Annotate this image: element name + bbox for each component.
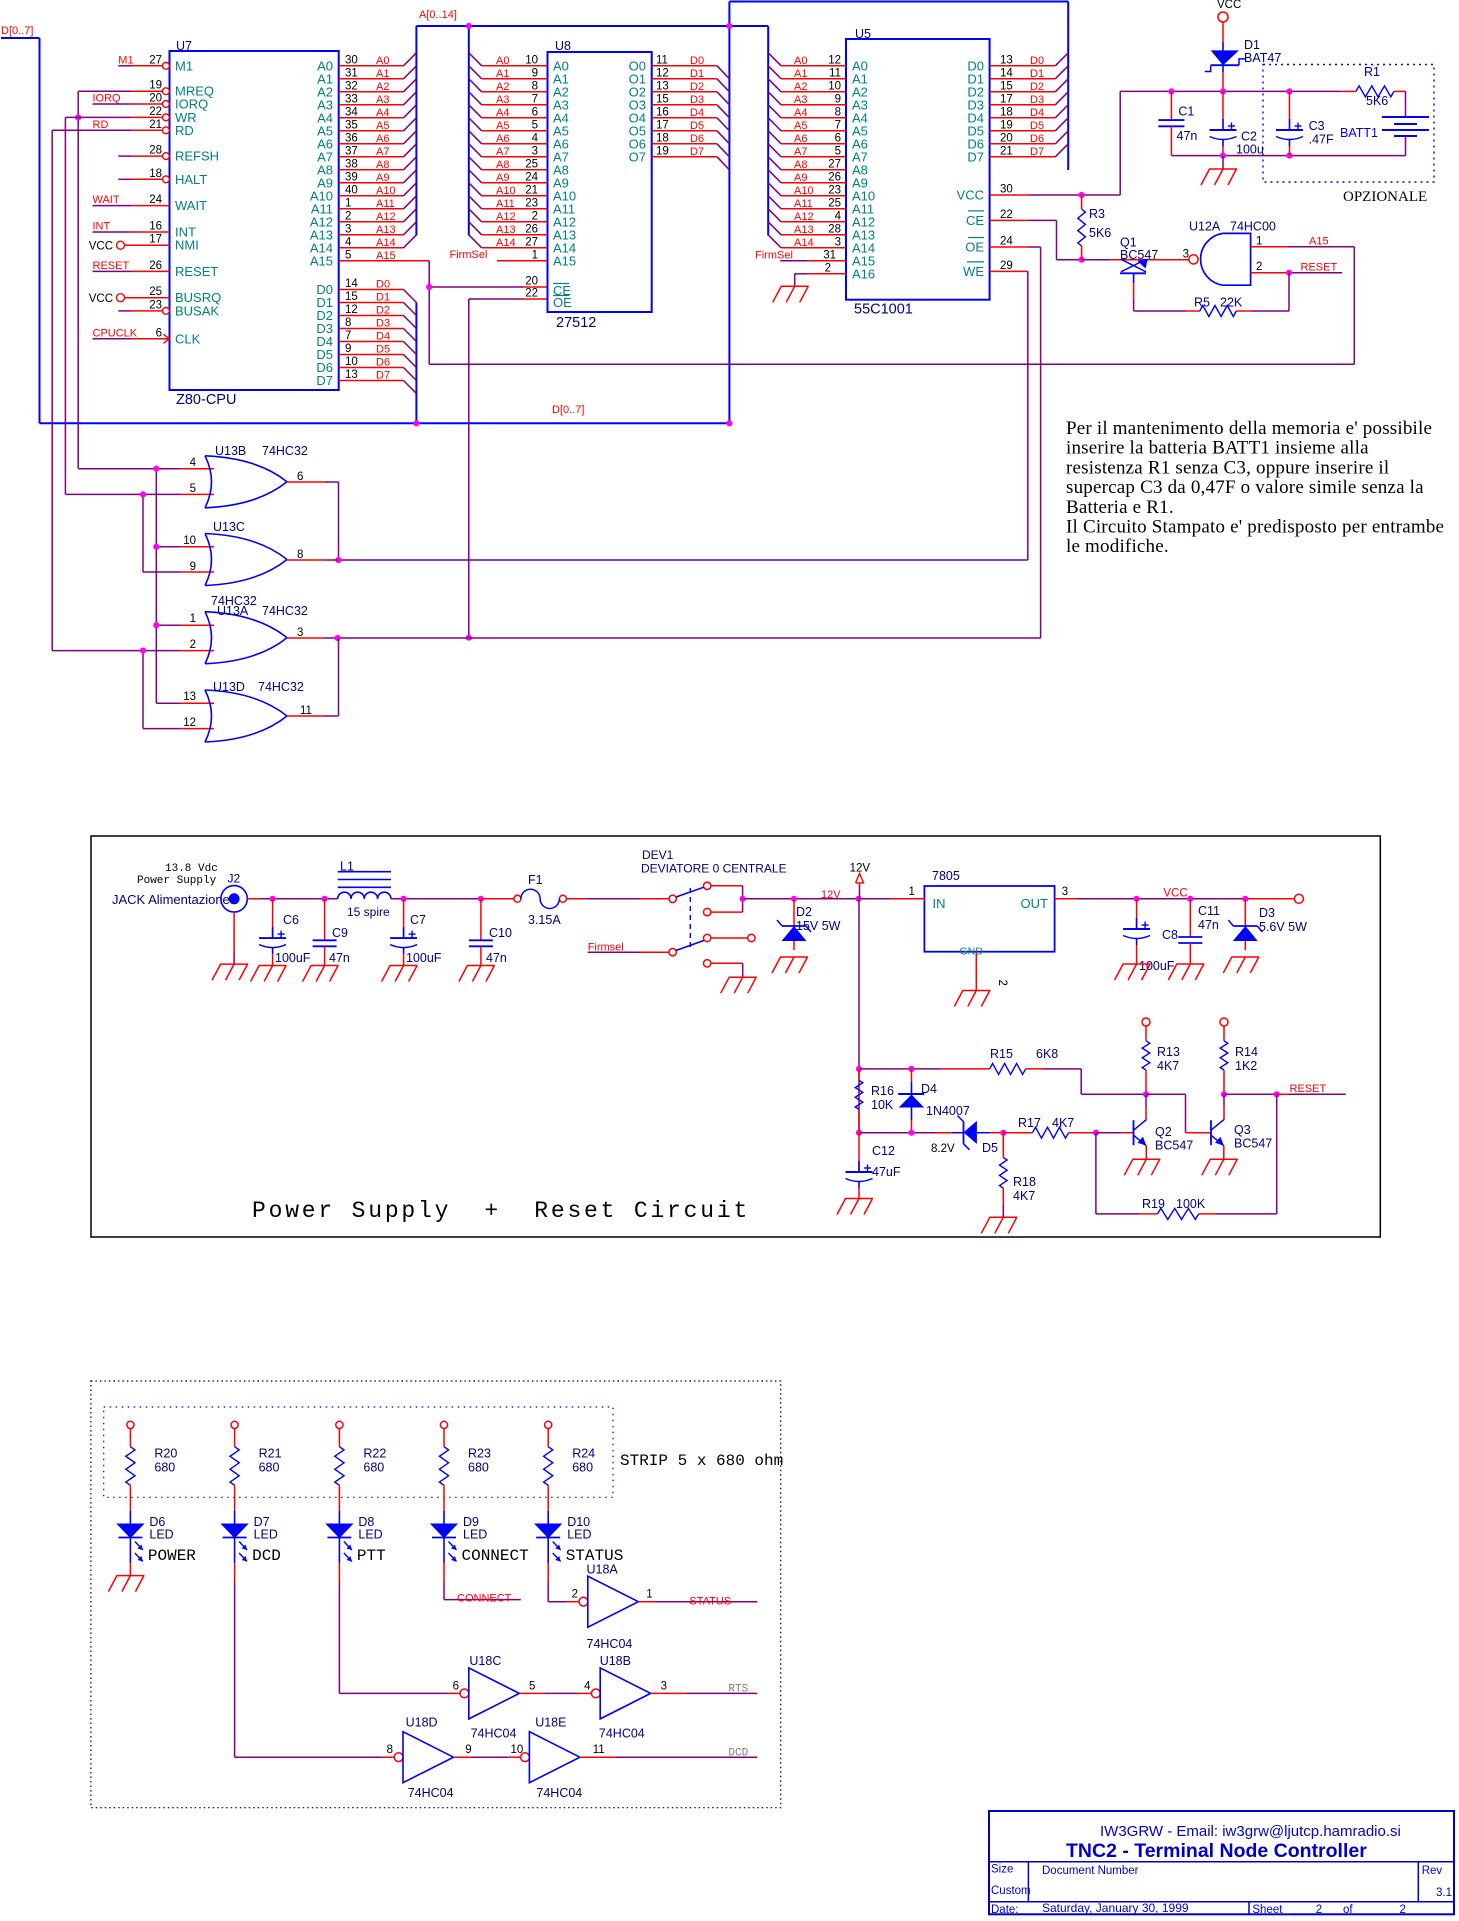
wire VCC rail right (1137, 898, 1246, 900)
svg-text:24: 24 (149, 194, 162, 206)
ground at Q2 (1132, 1158, 1160, 1160)
svg-text:680: 680 (468, 1461, 489, 1475)
ground at D6 (129, 1563, 131, 1576)
junction MREQ/WR (75, 114, 81, 120)
svg-text:4K7: 4K7 (1157, 1059, 1179, 1073)
wire D8 to U18C (338, 1563, 340, 1582)
svg-text:A15: A15 (553, 253, 576, 268)
svg-text:100uF: 100uF (1139, 959, 1175, 973)
svg-text:VCC: VCC (89, 241, 113, 253)
svg-text:A10: A10 (376, 185, 396, 197)
svg-text:DEVIATORE 0 CENTRALE: DEVIATORE 0 CENTRALE (641, 862, 787, 876)
svg-text:C7: C7 (410, 913, 426, 927)
svg-text:C11: C11 (1198, 904, 1220, 918)
ground at J2 (220, 963, 248, 965)
capacitor C8 100uF (1136, 899, 1138, 928)
svg-text:13: 13 (345, 369, 358, 381)
resistor R13 4K7 (1142, 1018, 1150, 1026)
svg-text:6: 6 (532, 106, 538, 118)
svg-text:WE: WE (963, 264, 984, 279)
diode D1 BAT47 (1222, 42, 1224, 50)
svg-text:7: 7 (835, 119, 841, 131)
battery BATT1 (1382, 116, 1429, 118)
svg-text:17: 17 (1000, 93, 1013, 105)
wire L1 to C7 (391, 898, 481, 900)
svg-text:R16: R16 (871, 1084, 894, 1098)
svg-text:25: 25 (828, 197, 841, 209)
svg-text:C1: C1 (1178, 105, 1194, 119)
led D7 LED (234, 1511, 236, 1524)
svg-text:D4: D4 (376, 331, 390, 343)
svg-text:23: 23 (149, 299, 162, 311)
svg-text:5K6: 5K6 (1089, 226, 1111, 240)
wire DEV1 lower to ground (711, 962, 743, 964)
svg-text:D3: D3 (690, 94, 704, 106)
svg-text:A2: A2 (496, 81, 509, 93)
svg-text:9: 9 (532, 67, 538, 79)
bus vertical D riser x=729 (728, 2, 730, 424)
svg-text:1: 1 (646, 1589, 652, 1601)
svg-text:21: 21 (149, 119, 162, 131)
svg-text:BC547: BC547 (1155, 1139, 1193, 1153)
zener D5 8.2V (935, 1132, 952, 1134)
svg-text:27: 27 (149, 54, 162, 66)
svg-text:5: 5 (529, 1680, 535, 1692)
svg-text:12: 12 (345, 304, 358, 316)
svg-text:C3: C3 (1309, 119, 1325, 133)
svg-text:47n: 47n (486, 951, 507, 965)
svg-text:A7: A7 (376, 146, 389, 158)
svg-text:D[0..7]: D[0..7] (552, 404, 584, 416)
svg-text:A[0..14]: A[0..14] (419, 9, 457, 21)
wire power input line (247, 898, 260, 900)
svg-text:CPUCLK: CPUCLK (93, 327, 138, 339)
svg-text:M1: M1 (175, 58, 193, 73)
svg-text:WAIT: WAIT (175, 198, 207, 213)
svg-text:Q2: Q2 (1155, 1125, 1172, 1139)
capacitor C10 47n (480, 899, 482, 941)
svg-text:D2: D2 (796, 905, 812, 919)
resistor R18 4K7 (1002, 1133, 1004, 1158)
svg-text:3: 3 (661, 1680, 667, 1692)
svg-text:D[0..7]: D[0..7] (1, 25, 33, 37)
svg-text:4: 4 (835, 210, 842, 222)
svg-text:Size: Size (991, 1864, 1013, 1876)
wire RD to OR gates (52, 129, 131, 131)
svg-text:D2: D2 (376, 305, 390, 317)
svg-text:CE: CE (966, 213, 984, 228)
ground at D2 (780, 956, 808, 958)
svg-text:D5: D5 (690, 120, 704, 132)
wire U13D output (287, 715, 325, 717)
svg-text:22: 22 (149, 106, 162, 118)
svg-text:A13: A13 (376, 224, 396, 236)
svg-text:2: 2 (825, 262, 831, 274)
svg-text:74HC04: 74HC04 (587, 1637, 633, 1651)
bus vertical U5 D-side (1067, 2, 1069, 171)
svg-text:A6: A6 (496, 133, 509, 145)
svg-text:R13: R13 (1157, 1045, 1180, 1059)
svg-text:D5: D5 (376, 344, 390, 356)
power supply frame box (91, 836, 1380, 1237)
svg-text:Il Circuito Stampato e' predis: Il Circuito Stampato e' predisposto per … (1066, 517, 1444, 538)
svg-text:35: 35 (345, 119, 358, 131)
offpage connector VCC (1294, 894, 1303, 903)
svg-text:PTT: PTT (357, 1547, 386, 1565)
wire WR branch vertical (142, 494, 144, 572)
svg-text:8: 8 (387, 1744, 393, 1756)
svg-text:6: 6 (297, 471, 303, 483)
svg-text:1: 1 (345, 197, 351, 209)
resistor R20 680 (127, 1421, 134, 1428)
wire U5 OE to gates (1028, 246, 1041, 248)
U5 pin 2 A16 ground wire (807, 273, 846, 275)
svg-text:19: 19 (149, 80, 162, 92)
svg-text:R14: R14 (1235, 1045, 1258, 1059)
wire U18C to U18B (520, 1692, 545, 1694)
gate input red stubs (180, 468, 214, 470)
svg-text:Rev: Rev (1422, 1865, 1443, 1877)
svg-text:A12: A12 (794, 211, 814, 223)
svg-text:A0: A0 (794, 55, 807, 67)
wire U13C output (287, 559, 325, 561)
svg-text:D4: D4 (921, 1082, 937, 1096)
capacitor C9 47n (324, 899, 326, 941)
wire U5 WE to gates (1027, 271, 1029, 560)
wire STATUS (639, 1601, 657, 1603)
resistor R5 22K (1134, 310, 1187, 312)
svg-text:24: 24 (1000, 236, 1013, 248)
svg-text:10: 10 (345, 356, 358, 368)
svg-text:D5: D5 (1030, 120, 1044, 132)
U7 pin 19 MREQ (163, 88, 170, 95)
svg-text:A2: A2 (794, 81, 807, 93)
bus D[0..7] left segment (1, 37, 40, 39)
svg-text:Batteria e R1.: Batteria e R1. (1066, 497, 1174, 518)
svg-text:1N4007: 1N4007 (926, 1104, 970, 1118)
svg-text:2: 2 (345, 210, 351, 222)
svg-text:74HC32: 74HC32 (258, 680, 304, 694)
svg-text:IW3GRW - Email: iw3grw@ljutcp.: IW3GRW - Email: iw3grw@ljutcp.hamradio.s… (1100, 1823, 1401, 1840)
svg-text:15: 15 (1000, 80, 1013, 92)
ic U5 55C1001 box (846, 39, 990, 300)
svg-text:13: 13 (1000, 54, 1013, 66)
svg-text:D7: D7 (967, 149, 984, 164)
svg-text:BUSAK: BUSAK (175, 303, 219, 318)
svg-text:D1: D1 (690, 68, 704, 80)
svg-text:3: 3 (532, 145, 538, 157)
svg-text:24: 24 (525, 171, 538, 183)
svg-text:DCD: DCD (728, 1747, 748, 1759)
zener D3 5.6V 5W (1244, 899, 1246, 926)
svg-text:12: 12 (656, 67, 669, 79)
svg-text:R1: R1 (1364, 65, 1380, 79)
capacitor C3 .47F supercap (1289, 91, 1291, 119)
svg-text:4: 4 (532, 132, 539, 144)
svg-text:C9: C9 (332, 926, 348, 940)
svg-text:9: 9 (345, 343, 351, 355)
svg-text:38: 38 (345, 158, 358, 170)
svg-text:20: 20 (149, 93, 162, 105)
svg-text:27: 27 (828, 158, 841, 170)
wire U5 CE to R3/NAND (1028, 219, 1057, 221)
ground at C11 (1176, 963, 1204, 965)
svg-text:D6: D6 (376, 357, 390, 369)
svg-text:C12: C12 (872, 1144, 895, 1158)
svg-text:A1: A1 (496, 68, 509, 80)
svg-text:15 spire: 15 spire (347, 905, 390, 919)
svg-text:R20: R20 (154, 1447, 177, 1461)
svg-text:OE: OE (553, 295, 572, 310)
wire VCC backup rail (1171, 90, 1341, 92)
svg-text:8: 8 (532, 80, 538, 92)
svg-text:11: 11 (593, 1744, 605, 1756)
svg-text:21: 21 (1000, 145, 1013, 157)
svg-text:.47F: .47F (1309, 133, 1334, 147)
svg-text:3: 3 (345, 223, 351, 235)
wire WR to OR gates (65, 116, 131, 118)
svg-text:55C1001: 55C1001 (854, 302, 913, 318)
svg-text:A12: A12 (376, 211, 396, 223)
svg-text:U12A: U12A (1189, 220, 1221, 234)
svg-text:U18E: U18E (535, 1716, 566, 1730)
svg-text:A8: A8 (376, 159, 389, 171)
ground at 7805 (962, 990, 990, 992)
svg-text:RESET: RESET (1290, 1083, 1327, 1095)
svg-text:28: 28 (828, 223, 841, 235)
svg-text:22: 22 (525, 288, 538, 300)
wire MREQ to OR gates (78, 90, 131, 92)
dotted box OPZIONALE (1263, 65, 1434, 183)
svg-text:9: 9 (190, 561, 196, 573)
svg-text:D2: D2 (1030, 81, 1044, 93)
svg-text:A11: A11 (496, 198, 515, 210)
svg-text:3.1: 3.1 (1436, 1887, 1452, 1899)
ic U7 Z80-CPU box (170, 51, 339, 390)
svg-text:100uF: 100uF (275, 951, 311, 965)
svg-text:U18D: U18D (406, 1716, 438, 1730)
wire U13A output to OE line (287, 637, 324, 639)
svg-text:A5: A5 (794, 120, 807, 132)
svg-text:U18A: U18A (587, 1563, 619, 1577)
svg-text:A13: A13 (496, 224, 516, 236)
svg-text:U8: U8 (555, 39, 571, 53)
svg-text:12V: 12V (850, 863, 871, 875)
svg-text:U5: U5 (855, 27, 871, 41)
svg-text:15: 15 (656, 93, 669, 105)
resistor R24 680 (545, 1421, 552, 1428)
svg-text:10: 10 (828, 80, 841, 92)
svg-text:5: 5 (532, 119, 538, 131)
svg-text:U18C: U18C (469, 1654, 501, 1668)
svg-text:D2: D2 (690, 81, 704, 93)
svg-text:4: 4 (584, 1680, 591, 1692)
svg-text:A6: A6 (794, 133, 807, 145)
led D9 LED (443, 1511, 445, 1524)
svg-text:A10: A10 (794, 185, 814, 197)
svg-text:R23: R23 (468, 1447, 491, 1461)
ground at C7 (390, 965, 418, 967)
svg-text:10: 10 (525, 54, 538, 66)
svg-text:D3: D3 (1030, 94, 1044, 106)
svg-text:R5: R5 (1194, 296, 1210, 310)
svg-text:74HC32: 74HC32 (262, 604, 308, 618)
svg-text:7: 7 (532, 93, 538, 105)
junction bus A/D crossings (466, 23, 472, 29)
svg-text:2: 2 (572, 1589, 578, 1601)
svg-text:14: 14 (1000, 67, 1013, 79)
svg-text:NMI: NMI (175, 238, 199, 253)
svg-text:D1: D1 (376, 292, 390, 304)
svg-text:VCC: VCC (1217, 0, 1241, 11)
svg-text:STATUS: STATUS (689, 1596, 731, 1608)
svg-text:7805: 7805 (932, 869, 960, 883)
svg-text:6K8: 6K8 (1036, 1047, 1058, 1061)
ground at D3 (1231, 956, 1259, 958)
svg-text:25: 25 (149, 286, 162, 298)
ground at U5 A16 (781, 285, 809, 287)
ground at C12 (845, 1198, 873, 1200)
svg-text:3.15A: 3.15A (528, 913, 561, 927)
svg-text:23: 23 (525, 197, 538, 209)
ground at C6 (259, 965, 287, 967)
svg-text:A5: A5 (496, 120, 509, 132)
svg-text:LED: LED (358, 1528, 382, 1542)
svg-text:20: 20 (1000, 132, 1013, 144)
resistor R1 5K6 (1356, 86, 1394, 97)
svg-text:29: 29 (1000, 260, 1013, 272)
wire MREQ branch vertical (155, 469, 157, 704)
svg-text:A6: A6 (376, 133, 389, 145)
svg-text:R22: R22 (363, 1447, 386, 1461)
svg-text:VCC: VCC (957, 188, 984, 203)
U7 pin 27 M1 (163, 62, 170, 69)
svg-text:680: 680 (572, 1461, 593, 1475)
svg-text:D0: D0 (376, 279, 390, 291)
svg-text:16: 16 (656, 106, 669, 118)
resistor R19 100K (1158, 1208, 1199, 1219)
transistor Q1 BC547 (1121, 259, 1146, 272)
7805 pin 2 ground (975, 952, 977, 991)
svg-text:R19: R19 (1142, 1197, 1165, 1211)
svg-text:22K: 22K (1220, 296, 1243, 310)
U7 pin 6 CLK (164, 334, 170, 343)
svg-text:5.6V 5W: 5.6V 5W (1259, 920, 1307, 934)
svg-text:31: 31 (823, 249, 836, 261)
svg-text:D4: D4 (690, 107, 704, 119)
svg-text:D6: D6 (690, 133, 704, 145)
svg-text:8: 8 (297, 549, 303, 561)
svg-text:D7: D7 (690, 146, 704, 158)
svg-text:8.2V: 8.2V (931, 1143, 955, 1155)
svg-text:BAT47: BAT47 (1244, 51, 1281, 65)
svg-text:1: 1 (190, 613, 196, 625)
svg-text:POWER: POWER (148, 1547, 196, 1565)
zener D2 15V 5W (793, 899, 795, 926)
svg-text:15: 15 (345, 291, 358, 303)
ground at C8 (1123, 963, 1151, 965)
svg-text:D7: D7 (1030, 146, 1044, 158)
U7 pin 18 HALT (163, 176, 170, 183)
svg-text:C8: C8 (1162, 928, 1178, 942)
transistor Q2 BC547 (1143, 1091, 1149, 1097)
ground at R18 (989, 1216, 1017, 1218)
U7 pin 21 RD (163, 127, 170, 134)
svg-text:6: 6 (156, 327, 162, 339)
svg-text:A1: A1 (376, 68, 389, 80)
svg-text:A2: A2 (376, 81, 389, 93)
bus vertical U8 A-side (468, 26, 470, 236)
svg-text:R3: R3 (1089, 207, 1105, 221)
svg-text:39: 39 (345, 171, 358, 183)
svg-text:680: 680 (154, 1461, 175, 1475)
svg-text:CONNECT: CONNECT (457, 1593, 512, 1605)
svg-text:37: 37 (345, 145, 358, 157)
svg-text:A16: A16 (852, 266, 875, 281)
svg-text:6: 6 (835, 132, 841, 144)
svg-text:J2: J2 (228, 872, 241, 886)
svg-text:14: 14 (345, 278, 358, 290)
bus vertical U5 A-side (767, 26, 769, 236)
svg-text:10K: 10K (871, 1098, 894, 1112)
resistor R3 5K6 (1081, 195, 1083, 209)
svg-text:inserire la batteria BATT1 ins: inserire la batteria BATT1 insieme alla (1066, 438, 1369, 459)
svg-text:12V: 12V (821, 889, 841, 901)
svg-text:RD: RD (175, 123, 194, 138)
svg-text:3: 3 (835, 236, 841, 248)
bus A[0..14] horizontal (416, 25, 768, 27)
svg-text:26: 26 (149, 260, 162, 272)
svg-text:47n: 47n (329, 951, 350, 965)
bus D top horizontal (729, 1, 1068, 3)
svg-text:OPZIONALE: OPZIONALE (1343, 189, 1427, 205)
svg-text:A7: A7 (496, 146, 509, 158)
svg-text:17: 17 (656, 119, 669, 131)
svg-text:A0: A0 (376, 55, 389, 67)
svg-text:M1: M1 (118, 54, 133, 66)
svg-text:A15: A15 (376, 250, 396, 262)
svg-text:OE: OE (965, 240, 984, 255)
svg-text:23: 23 (828, 184, 841, 196)
svg-text:CONNECT: CONNECT (462, 1547, 529, 1565)
U7 pin 22 WR (163, 114, 170, 121)
svg-text:2: 2 (1316, 1904, 1322, 1916)
svg-text:A1: A1 (794, 68, 807, 80)
svg-text:18: 18 (656, 132, 669, 144)
svg-text:A7: A7 (794, 146, 807, 158)
wire U8 OE to gates (523, 298, 548, 300)
svg-text:le modifiche.: le modifiche. (1066, 536, 1169, 557)
wire RESET net (1224, 1093, 1277, 1095)
svg-text:2: 2 (190, 639, 196, 651)
svg-text:15V 5W: 15V 5W (796, 919, 841, 933)
svg-text:680: 680 (363, 1461, 384, 1475)
U7 pin 28 REFSH (163, 153, 170, 160)
svg-text:Per il mantenimento della memo: Per il mantenimento della memoria e' pos… (1066, 418, 1432, 439)
resistor R23 680 (440, 1421, 447, 1428)
svg-text:3: 3 (1062, 886, 1068, 898)
svg-text:R15: R15 (990, 1047, 1013, 1061)
svg-text:1: 1 (532, 249, 538, 261)
capacitor C12 47uF (858, 1133, 860, 1171)
svg-text:A11: A11 (376, 198, 395, 210)
wire DCD (580, 1756, 615, 1758)
svg-text:D1: D1 (1244, 38, 1260, 52)
svg-text:47uF: 47uF (872, 1165, 901, 1179)
ground at DEV1 (729, 976, 757, 978)
led D6 LED (129, 1511, 131, 1524)
ground at Q3 (1210, 1158, 1238, 1160)
